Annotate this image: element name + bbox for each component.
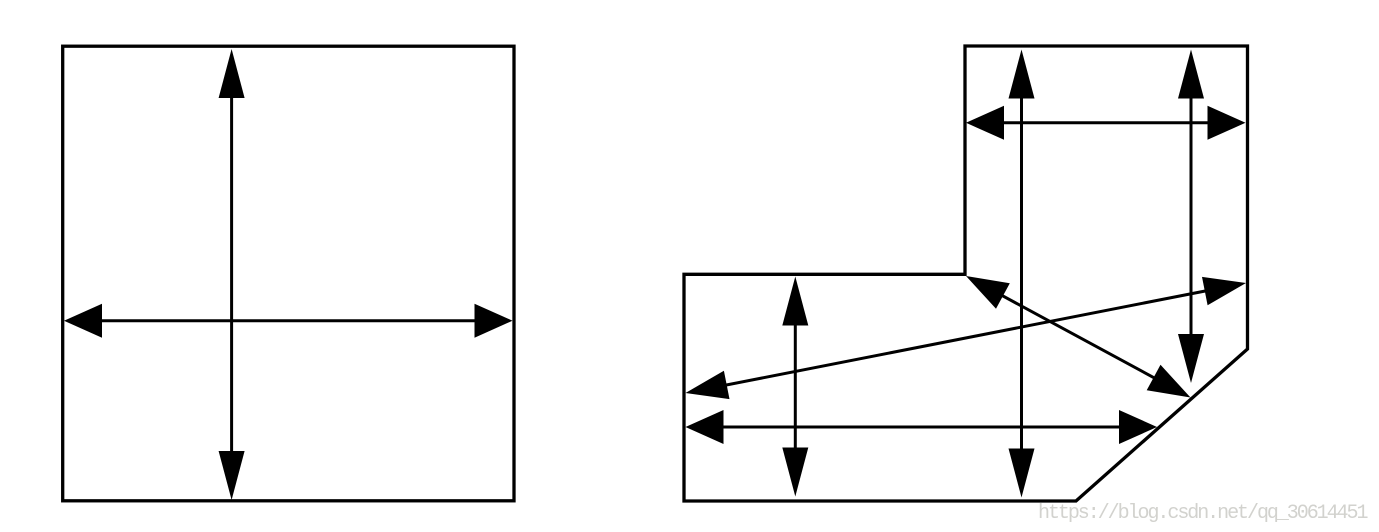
- vertical double arrow (top rect right): [1178, 50, 1204, 384]
- svg-text:https://blog.csdn.net/qq_30614: https://blog.csdn.net/qq_30614451: [1038, 502, 1368, 525]
- diagonal double arrow B: [966, 276, 1191, 398]
- square outline: [63, 46, 514, 501]
- horizontal double arrow (top rect): [966, 106, 1246, 140]
- vertical double arrow (left arm): [782, 277, 808, 497]
- long vertical double arrow (top rect left): [1009, 50, 1035, 498]
- horizontal double arrow (left arm): [686, 410, 1158, 444]
- vertical double arrow (square): [219, 49, 245, 500]
- horizontal double arrow (square): [64, 304, 513, 338]
- diagonal double arrow A: [686, 277, 1247, 399]
- L-shaped polygon outline: [684, 46, 1248, 501]
